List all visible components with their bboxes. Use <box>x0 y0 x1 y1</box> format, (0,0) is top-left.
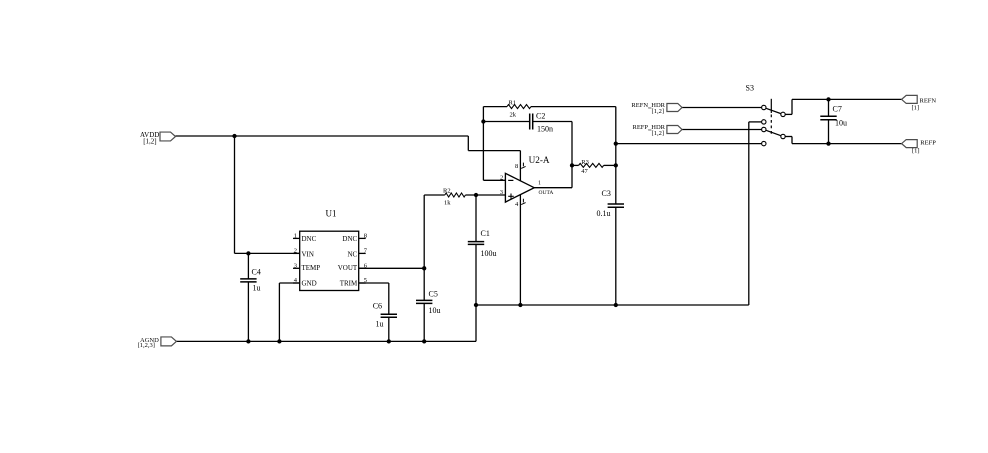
svg-text:10u: 10u <box>429 306 441 315</box>
svg-text:[1,2]: [1,2] <box>143 137 156 145</box>
svg-text:1k: 1k <box>444 200 451 207</box>
svg-text:2: 2 <box>500 175 503 182</box>
svg-text:[1]: [1] <box>912 147 920 154</box>
svg-text:47: 47 <box>581 168 588 175</box>
svg-text:NC: NC <box>347 250 357 258</box>
svg-text:4: 4 <box>515 201 519 208</box>
svg-text:TEMP: TEMP <box>302 264 321 272</box>
svg-text:1: 1 <box>538 181 541 187</box>
svg-text:100u: 100u <box>481 249 497 258</box>
svg-text:5: 5 <box>364 277 367 284</box>
svg-text:OUTA: OUTA <box>539 190 554 196</box>
svg-text:DNC: DNC <box>342 235 357 243</box>
svg-text:U1: U1 <box>326 209 337 219</box>
svg-text:C6: C6 <box>373 301 382 310</box>
svg-text:R3: R3 <box>581 159 589 166</box>
svg-text:7: 7 <box>364 248 368 255</box>
svg-text:2: 2 <box>294 248 297 255</box>
svg-text:GND: GND <box>302 280 317 288</box>
svg-text:10u: 10u <box>835 119 847 128</box>
svg-text:1: 1 <box>294 233 297 240</box>
svg-text:C5: C5 <box>429 289 438 298</box>
svg-text:VIN: VIN <box>302 250 314 258</box>
svg-text:3: 3 <box>294 263 297 270</box>
svg-text:R1: R1 <box>509 100 517 107</box>
svg-text:¯[1,2]: ¯[1,2] <box>647 130 664 137</box>
svg-text:8: 8 <box>515 163 518 170</box>
svg-text:1u: 1u <box>253 284 261 293</box>
svg-text:DNC: DNC <box>302 235 317 243</box>
svg-text:¯[1,2]: ¯[1,2] <box>647 108 664 115</box>
svg-text:150n: 150n <box>537 124 553 133</box>
svg-text:C4: C4 <box>252 268 261 277</box>
svg-text:VOUT: VOUT <box>338 264 358 272</box>
svg-text:3: 3 <box>500 189 503 196</box>
svg-text:C1: C1 <box>481 229 490 238</box>
svg-text:R2: R2 <box>443 188 451 195</box>
svg-text:2k: 2k <box>510 111 517 118</box>
svg-text:U2-A: U2-A <box>529 155 550 165</box>
svg-text:S3: S3 <box>746 84 754 93</box>
svg-text:[1,2,3]: [1,2,3] <box>138 342 155 349</box>
svg-text:C7: C7 <box>833 104 842 113</box>
svg-text:TRIM: TRIM <box>340 280 358 288</box>
svg-text:1u: 1u <box>376 319 384 328</box>
svg-text:C3: C3 <box>602 189 611 198</box>
svg-text:C2: C2 <box>536 112 545 121</box>
svg-text:REFN: REFN <box>920 98 937 105</box>
svg-text:8: 8 <box>364 233 367 240</box>
svg-text:[1]: [1] <box>912 105 920 112</box>
svg-text:REFP: REFP <box>920 140 936 147</box>
svg-text:0.1u: 0.1u <box>597 209 611 218</box>
